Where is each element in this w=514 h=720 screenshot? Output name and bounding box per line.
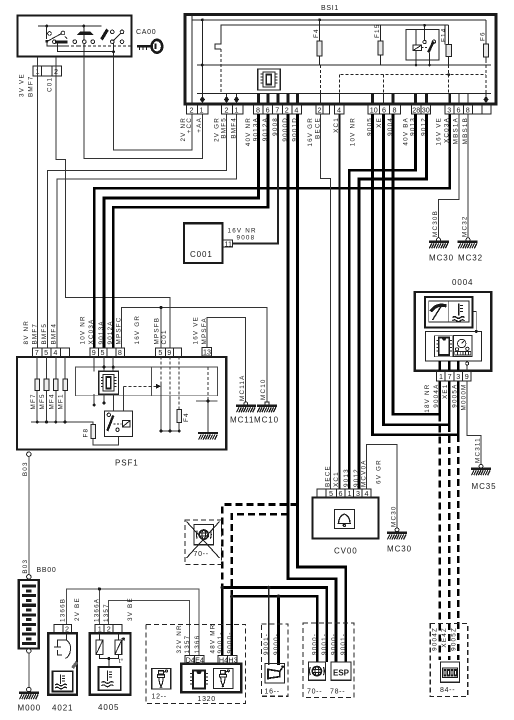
svg-text:F15: F15 <box>374 24 381 38</box>
junction dots bottom buses <box>221 586 281 599</box>
wire MCV0A CV00 pin4 to ground MC30 <box>367 445 397 529</box>
svg-text:9001-: 9001- <box>321 633 328 655</box>
PSF1 internal ground <box>198 433 218 440</box>
BSI connector 10V NR pins 10,6,8 <box>368 105 401 114</box>
ground MC32 <box>466 238 470 242</box>
svg-text:B03: B03 <box>22 559 29 574</box>
svg-text:70--: 70-- <box>307 689 322 696</box>
wire B03 PSF1 to battery <box>28 456 30 574</box>
svg-text:9000-: 9000- <box>227 631 234 653</box>
connector C01 pins 1,2 <box>33 66 62 76</box>
deleted radio option 70-- crossed box <box>185 520 222 564</box>
wire 9001D BSI pin4 down <box>298 114 346 662</box>
svg-text:MC32: MC32 <box>462 215 469 237</box>
svg-text:MPSFB: MPSFB <box>154 317 161 345</box>
svg-text:8: 8 <box>466 105 470 114</box>
ground MC10 <box>265 402 269 406</box>
svg-text:2: 2 <box>225 105 229 114</box>
svg-text:9: 9 <box>92 348 96 357</box>
BSI internal top bus <box>192 19 486 21</box>
svg-text:5: 5 <box>44 348 48 357</box>
svg-text:4: 4 <box>53 348 57 357</box>
1320 wire labels <box>176 624 234 654</box>
CA00 internal lower wires <box>47 41 132 57</box>
fuse F14 <box>446 25 451 75</box>
CA00 internal wire top bus <box>38 25 102 27</box>
84-- DIP connector icon <box>440 662 459 682</box>
svg-text:BB00: BB00 <box>37 567 57 574</box>
svg-text:1357: 1357 <box>184 635 191 654</box>
wire 9012A BSI pin6 to PSF1 <box>113 114 268 348</box>
svg-text:5: 5 <box>158 348 162 357</box>
PSF1 right side wires <box>161 357 208 434</box>
wire C01 CA00 pin2 to PSF1 pin9 <box>56 57 170 348</box>
PSF1 wire labels <box>23 315 208 345</box>
wire 1357 4005 pin2 to 1320 D4 <box>108 600 189 655</box>
svg-text:ESP: ESP <box>333 669 350 678</box>
4005 thermometer icon <box>99 667 121 690</box>
wire BMF4 BSI to PSF1 pin4 <box>57 114 237 348</box>
svg-text:3: 3 <box>456 372 460 381</box>
wire XE BSI to 0004 <box>384 114 450 425</box>
ground MC30 lower <box>387 533 407 540</box>
svg-text:MC311: MC311 <box>475 437 482 463</box>
wire 9004Z dashed 0004 to 84-- <box>438 414 441 660</box>
svg-text:MF5: MF5 <box>39 393 46 409</box>
wire 9001 branch to 16-- <box>268 588 270 665</box>
wire XC03A BSI pin3 to PSF1 <box>94 114 449 348</box>
svg-text:9: 9 <box>167 348 171 357</box>
0004 internal link wire <box>473 311 477 331</box>
svg-text:B03: B03 <box>22 461 29 476</box>
BSI wire labels row <box>180 117 469 147</box>
svg-text:9000-: 9000- <box>273 633 280 655</box>
0004 pin stubs <box>440 361 458 371</box>
svg-text:9013: 9013 <box>343 468 350 487</box>
svg-text:MC10: MC10 <box>254 416 279 425</box>
svg-text:3: 3 <box>447 105 451 114</box>
wire 9005Z dashed 0004 to 84-- <box>457 435 460 660</box>
svg-text:4021: 4021 <box>52 704 73 713</box>
wire +CC CA00 to BSI <box>114 57 193 150</box>
wire MPSFA PSF1 pin13 to ground MC11 <box>207 317 246 401</box>
svg-text:BECE: BECE <box>324 465 331 487</box>
svg-text:C01: C01 <box>47 77 54 92</box>
svg-text:9004A: 9004A <box>433 384 440 408</box>
svg-text:BMF5: BMF5 <box>220 117 227 139</box>
wire 9000 dashed branch to H3 <box>232 514 288 598</box>
wire XE4Z dashed 0004 to 84-- <box>448 425 451 660</box>
wire MPSFB PSF1 pin5 <box>160 308 162 348</box>
svg-text:70--: 70-- <box>194 551 209 558</box>
svg-text:84--: 84-- <box>440 687 455 694</box>
svg-text:32V NR: 32V NR <box>176 624 183 653</box>
CA00 switch contact 3 <box>111 30 124 43</box>
svg-text:PSF1: PSF1 <box>115 459 139 468</box>
wire 9012 BSI pin30 to CV00 pin3 <box>359 114 427 489</box>
svg-text:7: 7 <box>35 348 39 357</box>
1320 IC icon <box>193 671 205 689</box>
svg-text:+AA: +AA <box>196 117 203 133</box>
svg-text:MC11A: MC11A <box>239 374 246 401</box>
svg-text:3V BE: 3V BE <box>127 597 134 621</box>
svg-text:5: 5 <box>329 489 333 498</box>
svg-text:9001-: 9001- <box>263 633 270 655</box>
svg-text:3V VE: 3V VE <box>19 73 26 97</box>
fuse F6 <box>483 20 488 94</box>
ECU 1320 <box>181 664 241 693</box>
svg-text:9004Z: 9004Z <box>432 627 439 651</box>
PSF1 fuse F4 <box>177 410 182 423</box>
radio unit 70-- / ESP unit 78-- dashed box <box>303 623 354 697</box>
svg-text:1366B: 1366B <box>59 598 66 622</box>
BSI connector 16V VE pins 3,6,8 <box>445 105 491 114</box>
16-- horn icon <box>265 664 285 684</box>
wire 9004 BSI to 0004 <box>393 114 440 414</box>
BSI inner relay feed line <box>444 25 446 44</box>
4021 connector pin 2 <box>54 624 72 633</box>
svg-text:2: 2 <box>190 105 194 114</box>
svg-text:3: 3 <box>356 489 360 498</box>
svg-text:XC03A: XC03A <box>88 319 95 345</box>
BSI connector 40V BA pins 28,30 <box>412 105 431 114</box>
0004 speedometer icon <box>431 305 447 311</box>
svg-text:6: 6 <box>339 489 343 498</box>
wire BMF5 BSI to PSF1 pin5 <box>47 114 226 348</box>
svg-text:8: 8 <box>256 105 260 114</box>
svg-text:4: 4 <box>294 105 298 114</box>
svg-text:9000-: 9000- <box>330 633 337 655</box>
svg-text:C01: C01 <box>161 329 168 344</box>
wire MPSFC PSF1 pin8 to ground MC10 <box>122 308 267 402</box>
svg-text:2: 2 <box>285 105 289 114</box>
diagnostic socket 84-- dashed box <box>430 624 468 697</box>
70-- globe icon <box>308 662 325 680</box>
fuse F15 <box>378 25 383 65</box>
svg-text:9000-: 9000- <box>312 633 319 655</box>
svg-text:7: 7 <box>448 372 452 381</box>
svg-text:+CC: +CC <box>186 117 193 133</box>
PSF1 connector pins 7,5,4 <box>33 348 70 357</box>
svg-text:H4: H4 <box>219 655 228 664</box>
horn unit 16-- dashed box <box>261 624 288 696</box>
PSF1 dashed control line <box>124 385 156 387</box>
PSF1 connector pins 9,5,8 <box>90 348 125 357</box>
svg-text:13: 13 <box>203 348 211 357</box>
svg-text:18V NR: 18V NR <box>424 384 431 413</box>
svg-text:4: 4 <box>337 105 341 114</box>
svg-text:1357: 1357 <box>103 603 110 622</box>
svg-text:XE1: XE1 <box>442 384 449 400</box>
BSI unit BSI1 <box>185 15 496 105</box>
BSI connector 40V NR pins 8,6,7,2,4 <box>254 105 302 114</box>
CV00 wire labels <box>324 459 382 487</box>
BSI inner module outline with notch <box>215 25 449 49</box>
svg-text:10V NR: 10V NR <box>349 117 356 146</box>
svg-text:XE4Z: XE4Z <box>441 627 448 648</box>
PSF1 fuse MF7 <box>36 357 38 423</box>
BSI internal left verticals <box>192 15 491 94</box>
wire 1366A 4005 pin1 <box>98 589 100 624</box>
PSF1 connector pins 5,9 <box>155 348 181 357</box>
BSI internal relay <box>406 25 439 65</box>
wire 9001 bus to 1320 H4 <box>221 588 224 656</box>
BSI connector 2V GR pins 2,1 <box>222 105 244 114</box>
svg-text:16V VE: 16V VE <box>436 117 443 146</box>
BSI pin arrows <box>200 96 489 103</box>
svg-text:F6: F6 <box>480 31 487 41</box>
svg-text:10V NR: 10V NR <box>80 315 87 344</box>
svg-text:6V GR: 6V GR <box>376 459 383 484</box>
wire 9000 bus across <box>232 596 317 662</box>
BSI internal dashed nets <box>221 49 486 94</box>
wire 1366B 4021 to 1320 E4 <box>67 589 200 656</box>
CV00 connector pins 5,6,1,3,4 <box>317 489 371 498</box>
svg-text:16V NR: 16V NR <box>228 228 257 235</box>
0004 connector pins 1,7,3,9 <box>437 371 471 381</box>
svg-text:4005: 4005 <box>98 703 119 712</box>
svg-text:F4: F4 <box>313 28 320 38</box>
svg-text:9005A: 9005A <box>451 384 458 408</box>
svg-text:BSI1: BSI1 <box>321 5 339 12</box>
svg-text:2: 2 <box>318 105 322 114</box>
wire 9008 BSI pin7 to C001 <box>233 114 278 244</box>
PSF1 internal relay <box>105 411 133 436</box>
wire BECE BSI to CV00 pin5 <box>321 114 331 489</box>
svg-text:8: 8 <box>118 348 122 357</box>
BSI internal fuse icon <box>258 69 281 90</box>
svg-text:C001: C001 <box>190 250 213 259</box>
wire BMF7 CA00 pin1 to PSF1 pin7 <box>37 57 39 348</box>
svg-text:1: 1 <box>439 372 443 381</box>
svg-text:MF4: MF4 <box>48 393 55 409</box>
BSI bottom bus <box>197 93 491 95</box>
svg-text:8V NR: 8V NR <box>23 320 30 345</box>
0004 coolant temp icon <box>453 304 465 322</box>
C001 pin 11 <box>223 240 232 247</box>
svg-text:11: 11 <box>225 239 232 248</box>
svg-text:CA00: CA00 <box>136 29 156 36</box>
svg-text:40V NR: 40V NR <box>245 117 252 146</box>
PSF1 B03 terminal <box>27 452 31 456</box>
svg-text:H3: H3 <box>228 655 237 664</box>
svg-text:8: 8 <box>393 105 397 114</box>
engine ECU assembly 1320 dashed box <box>146 625 246 704</box>
svg-text:MF1: MF1 <box>58 393 65 409</box>
svg-text:1: 1 <box>348 489 352 498</box>
svg-text:MC10: MC10 <box>260 378 267 400</box>
svg-text:16V GR: 16V GR <box>307 117 314 147</box>
BSI connector 2V NR pins 2,1 <box>187 105 209 114</box>
svg-text:1: 1 <box>235 105 239 114</box>
1320 connector pins H4,H3 <box>218 656 237 664</box>
PSF1 fuse MF4 <box>55 357 57 423</box>
svg-text:9008: 9008 <box>237 235 256 242</box>
svg-text:6: 6 <box>382 105 386 114</box>
CA00 switch contact 1 <box>47 26 67 44</box>
svg-text:XE: XE <box>376 117 383 128</box>
buzzer CV00 <box>313 498 379 539</box>
1320 connector pins D4,E4 <box>185 656 204 664</box>
svg-text:1320: 1320 <box>198 696 216 703</box>
PSF1 connector pin 13 <box>202 348 212 357</box>
0004 gauge mechanism icon <box>453 335 472 356</box>
BSI connector 16V GR pin 2 <box>316 105 330 114</box>
svg-text:MC30: MC30 <box>391 505 398 527</box>
coolant temp sensor 4005 <box>90 633 131 695</box>
PSF1 central connector icon <box>99 371 119 394</box>
svg-text:9: 9 <box>465 372 469 381</box>
key symbol <box>137 40 162 53</box>
wire MBS1A BSI to ground MC30 <box>439 114 459 238</box>
svg-text:9013A: 9013A <box>98 320 105 344</box>
svg-text:BMF7: BMF7 <box>32 323 39 345</box>
svg-text:16--: 16-- <box>265 689 280 696</box>
svg-text:MC30: MC30 <box>387 545 412 554</box>
svg-text:MC30: MC30 <box>429 254 454 263</box>
PSF1 fuse MF1 <box>64 357 66 423</box>
svg-text:48V MR: 48V MR <box>209 624 216 654</box>
wire 9001 dashed branch to H4 <box>222 505 297 591</box>
wire 9000 bus to 1320 H3 <box>231 596 234 655</box>
78-- ESP icon <box>331 662 351 680</box>
1320 injector icon <box>213 669 233 689</box>
svg-text:10: 10 <box>370 105 378 114</box>
wire +AA CA00 to BSI <box>84 57 202 159</box>
ground MC11 <box>244 402 248 406</box>
fuse box PSF1 <box>17 357 226 450</box>
PSF1 inner connector strip <box>76 367 218 396</box>
svg-text:CV00: CV00 <box>334 547 358 556</box>
wire 9001 bus across <box>222 588 326 663</box>
svg-text:BMF5: BMF5 <box>41 323 48 345</box>
0004 wire labels <box>424 384 467 413</box>
junction box C001 <box>184 223 223 263</box>
svg-text:MC11: MC11 <box>230 416 254 425</box>
0004 IC icon <box>435 336 453 357</box>
svg-text:16V VE: 16V VE <box>193 316 200 345</box>
instrument cluster 0004 <box>415 292 492 371</box>
wire M000M 0004 pin9 to ground MC35 <box>467 381 481 465</box>
svg-text:BMF7: BMF7 <box>28 75 35 97</box>
svg-text:28: 28 <box>412 105 420 114</box>
svg-text:9012A: 9012A <box>107 320 114 344</box>
injector unit 12-- <box>152 669 171 689</box>
svg-text:BMF4: BMF4 <box>51 323 58 345</box>
svg-text:1366A: 1366A <box>94 598 101 622</box>
svg-text:BMF4: BMF4 <box>230 117 237 139</box>
PSF1 fuse MF5 <box>46 357 48 423</box>
0004 gauge panel <box>425 297 473 328</box>
svg-text:F8: F8 <box>83 428 90 438</box>
ground M000 <box>19 693 39 700</box>
svg-text:XC1: XC1 <box>333 471 340 487</box>
svg-text:16V GR: 16V GR <box>134 315 141 345</box>
svg-text:t°: t° <box>119 657 124 665</box>
svg-text:30: 30 <box>422 105 430 114</box>
svg-text:F14: F14 <box>440 28 447 42</box>
svg-text:2V BE: 2V BE <box>74 597 81 621</box>
svg-text:9005Z: 9005Z <box>450 627 457 651</box>
wire XC1 BSI to CV00 pin6 <box>338 114 340 489</box>
4021 thermometer icon <box>52 671 72 691</box>
svg-text:1366: 1366 <box>194 635 201 654</box>
wire 9013 BSI pin28 to CV00 pin1 <box>349 114 415 489</box>
svg-text:6: 6 <box>457 105 461 114</box>
svg-text:9012: 9012 <box>353 468 360 487</box>
PSF1 fuse F8 <box>91 425 96 439</box>
svg-text:4: 4 <box>365 489 369 498</box>
ground MC35 <box>471 469 491 476</box>
BSI connector XC1 pin 4 <box>335 105 345 114</box>
svg-text:0004: 0004 <box>452 278 473 287</box>
svg-text:7: 7 <box>275 105 279 114</box>
wire 9000 branch to 16-- <box>277 596 280 665</box>
0004 electronics box <box>425 331 481 361</box>
svg-text:MC35: MC35 <box>472 482 497 491</box>
wire 9000D BSI pin2 down <box>288 114 336 662</box>
svg-text:M000: M000 <box>18 704 42 713</box>
wire 9005 BSI to 0004 <box>373 114 459 435</box>
wire 9013A BSI pin8 to PSF1 <box>104 114 259 348</box>
svg-text:MC30B: MC30B <box>432 210 439 237</box>
svg-text:5: 5 <box>101 348 105 357</box>
svg-text:9001-: 9001- <box>217 631 224 653</box>
svg-text:D4: D4 <box>186 655 195 664</box>
BSI pin stubs <box>192 94 486 106</box>
svg-text:12--: 12-- <box>152 694 167 701</box>
ground MC30 top right <box>437 238 441 242</box>
svg-text:M000M: M000M <box>460 384 467 411</box>
wire MBS1B BSI to ground MC32 <box>467 114 469 238</box>
wire battery to ground M000 <box>27 649 31 653</box>
svg-text:E4: E4 <box>195 655 204 664</box>
temperature switch 4021 <box>48 633 77 695</box>
svg-text:9001-: 9001- <box>340 633 347 655</box>
svg-text:6: 6 <box>266 105 270 114</box>
4005 connector pins 1,2 <box>95 624 122 633</box>
svg-text:MC32: MC32 <box>458 254 483 263</box>
svg-text:1: 1 <box>200 105 204 114</box>
CA00 switch contact 2 <box>73 26 95 44</box>
svg-text:78--: 78-- <box>330 689 345 696</box>
ignition switch CA00 <box>18 16 132 57</box>
PSF1 strip wires <box>94 357 123 412</box>
fuse F4 <box>317 20 322 65</box>
PSF1 bus to F8 <box>31 422 93 425</box>
svg-text:MF7: MF7 <box>30 393 37 409</box>
svg-text:F4: F4 <box>183 412 190 422</box>
CV00 bell icon <box>334 509 354 528</box>
battery BB00 <box>19 580 39 649</box>
